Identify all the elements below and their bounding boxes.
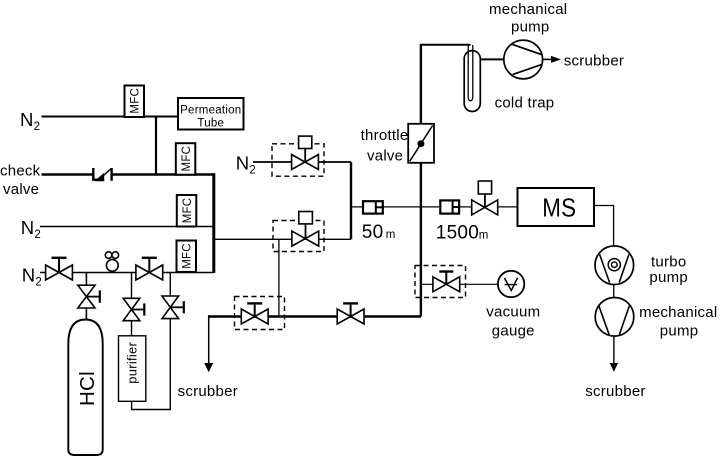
- label vacuum gauge: [486, 303, 540, 339]
- wire bottom HCl train line: [40, 272, 213, 274]
- valve V1 (bottom N2 inlet): [46, 258, 73, 280]
- MS box: [518, 188, 595, 226]
- wire check-valve line: [42, 173, 94, 175]
- svg-text:Permeation: Permeation: [180, 104, 241, 116]
- wire purifier outlet loop: [132, 273, 171, 410]
- dashed box D2: [273, 221, 324, 252]
- svg-text:scrubber: scrubber: [585, 383, 645, 400]
- wire pump outlet arrow to scrubber: [543, 56, 561, 63]
- svg-text:check: check: [0, 163, 41, 180]
- label 50 m: [362, 222, 396, 243]
- label turbo pump: [649, 254, 688, 286]
- svg-text:HCl: HCl: [76, 371, 99, 406]
- valve V6 with actuator (N2 mid, in dashed box): [292, 136, 319, 169]
- wire thin drop to vent line: [278, 239, 280, 316]
- wire N2 mid line to dashed valve: [253, 161, 351, 163]
- valve V3 (HCl cylinder valve, vertical): [78, 285, 100, 308]
- svg-text:vacuum: vacuum: [486, 303, 540, 320]
- wire top pipe to cold trap: [420, 44, 471, 46]
- cold trap: [464, 45, 480, 112]
- label 1500 m: [436, 222, 489, 243]
- valve V10 with actuator (before MS): [472, 181, 498, 215]
- HCl gas cylinder: [68, 320, 102, 456]
- svg-text:N2: N2: [20, 109, 40, 133]
- svg-text:valve: valve: [367, 147, 403, 164]
- svg-text:pump: pump: [511, 19, 550, 36]
- MFC U3 (N2 line 3): [177, 195, 197, 227]
- svg-text:Tube: Tube: [197, 118, 224, 130]
- svg-text:MFC: MFC: [182, 198, 194, 224]
- svg-text:MS: MS: [542, 193, 576, 223]
- svg-text:scrubber: scrubber: [564, 52, 624, 69]
- label mechanical pump (bottom): [639, 304, 717, 340]
- label throttle valve: [361, 127, 409, 164]
- svg-text:N2: N2: [236, 152, 256, 176]
- svg-text:pump: pump: [660, 323, 699, 340]
- valve V7 with actuator (bypass line, in dashed box): [292, 212, 319, 247]
- valve V9 (vent line right): [337, 303, 364, 324]
- svg-text:mechanical: mechanical: [489, 1, 567, 18]
- wire purifier inlet branch: [131, 273, 133, 337]
- label check valve: [0, 163, 41, 199]
- permeation tube box: [178, 98, 244, 130]
- svg-text:N2: N2: [21, 217, 41, 241]
- inline filter 50m: [363, 201, 383, 213]
- svg-text:valve: valve: [3, 181, 39, 198]
- wire vent line bottom: [208, 315, 421, 317]
- svg-text:50: 50: [362, 222, 384, 243]
- svg-text:m: m: [386, 229, 396, 241]
- valve V2 (before MFC U4): [136, 258, 163, 280]
- vacuum gauge: [498, 271, 524, 297]
- inline filter 1500m: [440, 200, 459, 213]
- svg-text:N2: N2: [22, 265, 42, 289]
- svg-text:gauge: gauge: [492, 322, 535, 339]
- svg-text:purifier: purifier: [125, 342, 140, 384]
- dashed box D3: [235, 297, 285, 330]
- valve V11 (vacuum gauge isolation, in dashed box): [433, 272, 460, 292]
- wire cold trap outlet to pump: [480, 58, 505, 60]
- mechanical pump (bottom): [595, 298, 634, 337]
- valve V8 (vent line, in dashed box): [241, 303, 268, 324]
- svg-text:MFC: MFC: [130, 88, 142, 114]
- check valve symbol: [93, 168, 111, 181]
- MFC U1 (top N2 line): [125, 86, 145, 118]
- wire N2 supply line 3: [40, 226, 213, 228]
- mechanical pump (top): [504, 40, 543, 79]
- wire MS to turbo pump: [594, 206, 614, 249]
- pressure regulator: [105, 252, 118, 271]
- valve V4 (purifier inlet, vertical): [123, 298, 144, 320]
- wire turbo to mechanical pump: [613, 285, 615, 299]
- svg-text:m: m: [479, 229, 489, 241]
- wire vacuum gauge line: [422, 283, 499, 285]
- svg-text:cold trap: cold trap: [495, 94, 555, 111]
- wire HCl cylinder branch: [85, 273, 87, 321]
- MFC U2 (check-valve line): [176, 143, 196, 175]
- throttle valve: [408, 124, 434, 163]
- svg-text:throttle: throttle: [361, 127, 409, 144]
- dashed box D1: [272, 144, 324, 176]
- label mechanical pump (top): [489, 1, 567, 36]
- dashed box D4: [415, 266, 466, 298]
- wire manifold vertical: [212, 173, 215, 273]
- svg-text:scrubber: scrubber: [178, 383, 238, 400]
- valve V5 (purifier outlet, vertical): [162, 296, 184, 319]
- purifier: [119, 336, 146, 402]
- svg-text:MFC: MFC: [181, 146, 193, 172]
- wire throttle/vacuum vertical pipe: [420, 45, 422, 317]
- svg-text:mechanical: mechanical: [639, 304, 717, 321]
- wire mechanical pump to scrubber (arrow): [610, 336, 618, 372]
- svg-text:MFC: MFC: [182, 243, 194, 269]
- svg-text:1500: 1500: [436, 222, 479, 243]
- wire N2 supply line 1: [42, 116, 179, 118]
- wire main sampling line to MS: [351, 206, 517, 208]
- turbo pump: [595, 246, 634, 285]
- wire bypass line from manifold: [215, 238, 351, 240]
- wire scrubber drop left (dotted with arrow): [204, 315, 213, 372]
- wire vertical from N2 valve to bypass line: [350, 162, 352, 239]
- svg-text:pump: pump: [649, 269, 688, 286]
- wire junction drop to check-valve line: [155, 117, 157, 176]
- MFC U4 (bottom line): [177, 241, 197, 273]
